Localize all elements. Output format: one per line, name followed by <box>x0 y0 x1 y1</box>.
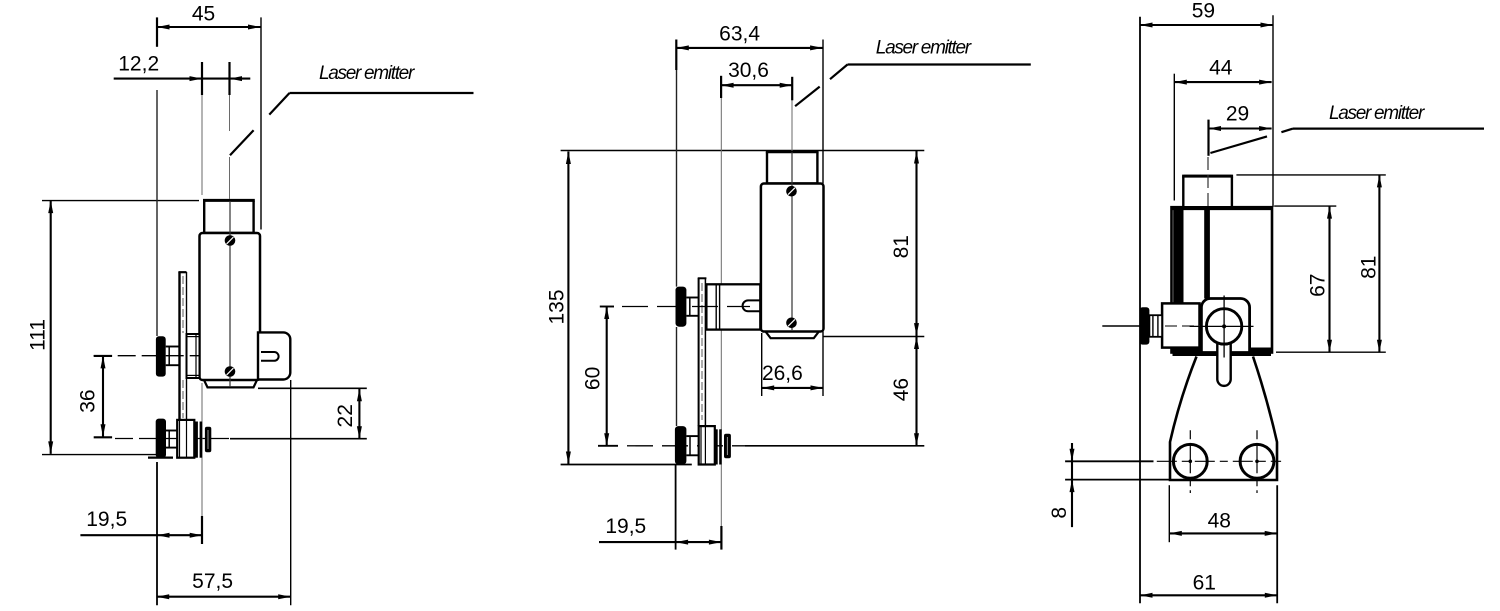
dimension 81 (middle view) <box>824 336 925 338</box>
svg-text:81: 81 <box>1357 256 1380 279</box>
dimension 61 (right view) <box>1140 594 1277 596</box>
boss inner bottom line (left view) <box>187 374 200 376</box>
svg-text:46: 46 <box>890 378 913 401</box>
svg-text:63,4: 63,4 <box>719 22 760 45</box>
dashed centerline lower knob (left view) <box>115 438 230 440</box>
lower stem top line (middle view) <box>686 435 698 437</box>
svg-text:Laser emitter: Laser emitter <box>1329 103 1425 124</box>
cap top edge thick (left view) <box>203 199 255 202</box>
middle view: bottom extension line y=464.5 <box>561 464 692 466</box>
dimension 60 (middle view) <box>606 307 608 446</box>
left view: extension line for 45 dim (right, body edge plane) <box>260 17 262 229</box>
bracket plate right edge (left view) <box>186 272 188 457</box>
dimension 81 (right view) <box>1378 175 1380 352</box>
body bottom black band (right view) <box>1173 348 1272 357</box>
dimension 44 (right view) <box>1174 81 1271 83</box>
dashed centerline upper knob (middle view) <box>622 306 750 308</box>
vertical centerline through body (middle view) <box>791 152 793 330</box>
vertical dashed centerline (right view) <box>1207 157 1209 207</box>
leader line Laser emitter (left view) <box>290 92 474 94</box>
clamp boss between plate and body (left view) <box>187 334 200 378</box>
screw head upper (middle view) <box>786 186 797 197</box>
lower stem bottom line (middle view) <box>686 454 698 456</box>
dimension 22 (left view) <box>258 387 367 389</box>
right view: 67 top extension <box>1274 205 1336 207</box>
svg-text:45: 45 <box>192 2 215 25</box>
dimension 111 (left view) <box>50 201 52 454</box>
slot below pivot (right view) <box>1217 344 1230 386</box>
lower knob stem rib (left view) <box>168 431 170 448</box>
middle view: right extension of 63,4 <box>822 40 824 184</box>
clamp block front (right view) <box>1162 303 1199 347</box>
adjustment knob front (right view) <box>1140 307 1150 344</box>
dimension 46 (middle view) <box>914 337 919 350</box>
vertical centerline through body (left view) <box>229 201 231 387</box>
dimension 45 (left view) <box>156 17 158 46</box>
upper stem top line (middle view) <box>686 297 698 299</box>
bracket arm top cap (middle view) <box>698 277 707 279</box>
dimension 19,5 (middle view) <box>675 465 677 550</box>
upper knob stem top line (left view) <box>166 346 180 348</box>
bracket plate left edge (left view) <box>178 272 180 457</box>
dimension 30,6 (middle view) <box>720 76 722 98</box>
clamp washer bar 2 (middle view) <box>719 429 722 464</box>
body top inner edge (right view) <box>1172 208 1273 210</box>
clamp washer bar 1 (left view) <box>195 422 198 458</box>
boss inner top line (left view) <box>187 336 200 338</box>
dimension 57,5 (left view) <box>290 380 292 605</box>
mounting arm silhouette (right view) <box>1170 357 1277 481</box>
lower clamp block (middle view) <box>699 426 715 464</box>
dimension 48 (right view) <box>1168 485 1170 542</box>
svg-text:26,6: 26,6 <box>762 362 803 385</box>
keyhole slot (middle view) <box>743 300 761 311</box>
middle view: thin line x=721 <box>720 98 722 528</box>
small knob slot (middle view) <box>726 437 728 455</box>
upper knob stem bottom line (left view) <box>166 364 180 366</box>
lower adjustment knob (middle view) <box>675 426 687 464</box>
clamp washer bar 1 (middle view) <box>715 429 718 464</box>
right view: right extension line (59/44/29) <box>1272 15 1274 207</box>
clamp inner line 1 (middle view) <box>700 427 702 464</box>
threaded stem (right view) <box>1149 315 1162 337</box>
stem rib 1 (right view) <box>1152 315 1154 337</box>
body bottom bevel (middle view) <box>766 332 819 339</box>
leader line Laser emitter (right view) <box>1293 128 1484 130</box>
clamp axis stub line (right view) <box>1102 325 1139 327</box>
bracket arm inner dashed line (middle view) <box>701 283 703 420</box>
small locking knob (middle view) <box>724 434 731 459</box>
dimension 59 (right view) <box>1140 24 1273 26</box>
dimension 135 (middle view) <box>567 152 569 465</box>
right foot vertical centerline (right view) <box>1256 430 1258 493</box>
46 dim bottom extension (middle view) <box>745 445 924 447</box>
svg-text:29: 29 <box>1226 102 1249 125</box>
pivot crosshair horizontal (right view) <box>1190 325 1254 327</box>
dashed centerline upper knob (left view) <box>94 355 199 357</box>
svg-text:30,6: 30,6 <box>728 59 769 82</box>
middle view: top extension line y=150.5 <box>561 150 925 152</box>
svg-text:12,2: 12,2 <box>118 53 159 76</box>
upper stem bottom line (middle view) <box>686 315 698 317</box>
leader line Laser emitter (middle view) <box>848 63 1031 65</box>
svg-text:57,5: 57,5 <box>192 570 233 593</box>
svg-text:Laser emitter: Laser emitter <box>876 38 972 59</box>
head block inner line 2 (middle view) <box>719 284 721 329</box>
middle view: thin line x=676 upper <box>676 70 678 287</box>
laser emitter body front (right view) <box>1172 207 1273 352</box>
lower knob stem bottom line (left view) <box>166 447 177 449</box>
vertical centerline above cap (middle view) <box>791 100 793 151</box>
svg-text:61: 61 <box>1193 572 1216 595</box>
bracket plate inner dashed line lower (left view) <box>182 380 184 418</box>
middle view: thin line x=676 middle <box>676 327 678 426</box>
upper adjustment knob (middle view) <box>676 287 687 327</box>
feet horizontal centerline (right view) <box>1157 460 1281 462</box>
60 dim bottom extension (middle view) <box>598 445 618 447</box>
svg-text:81: 81 <box>890 235 913 258</box>
right view: 81 top extension <box>1236 174 1385 176</box>
screw head upper (left view) <box>225 235 236 246</box>
small locking knob (left view) <box>205 427 211 453</box>
clamp washer bar 2 (left view) <box>200 422 203 458</box>
svg-text:Laser emitter: Laser emitter <box>319 63 415 84</box>
dimension 36 (left view) <box>94 355 112 357</box>
bracket arm left edge (middle view) <box>698 278 700 426</box>
lower stem rib (middle view) <box>689 436 691 455</box>
dimension 26,6 (middle view) <box>761 333 763 396</box>
bracket tab (left view) <box>258 332 290 379</box>
pivot center dot (right view) <box>1222 324 1226 328</box>
left view: top extension line of 111 dim <box>42 200 199 202</box>
clamp block inner line 1 (left view) <box>179 421 181 458</box>
laser emitter cap (left view) <box>204 200 253 233</box>
dimension 67 (right view) <box>1328 206 1330 352</box>
clamp head block (middle view) <box>706 284 760 329</box>
body bottom bevel (left view) <box>204 380 257 387</box>
dimension 8 (right view) <box>1065 460 1153 462</box>
laser emitter cap (middle view) <box>767 152 817 184</box>
stem rib 2 (right view) <box>1157 315 1159 337</box>
svg-text:36: 36 <box>77 389 100 412</box>
upper stem rib (middle view) <box>689 298 691 316</box>
head block inner line 1 (middle view) <box>715 284 717 329</box>
lower clamp block (left view) <box>177 420 194 458</box>
upper adjustment knob (left view) <box>156 336 166 376</box>
pivot circle (right view) <box>1206 309 1241 344</box>
lower knob stem top line (left view) <box>166 430 177 432</box>
screw head lower (middle view) <box>786 318 797 329</box>
svg-text:48: 48 <box>1208 509 1231 532</box>
left foot vertical centerline (right view) <box>1189 430 1191 493</box>
right foot hole circle (right view) <box>1240 444 1274 478</box>
left view: bottom extension line of 111 dim <box>42 454 157 456</box>
right view: 67/81 bottom extension <box>1276 351 1386 353</box>
body slot strip edge-on (right view) <box>1204 209 1210 299</box>
svg-text:19,5: 19,5 <box>86 508 127 531</box>
left view: bracket foot bottom edge <box>148 457 173 459</box>
left foot hole circle (right view) <box>1173 444 1207 478</box>
thin extension line x=202 lower (left view) <box>201 383 203 518</box>
lower adjustment knob (left view) <box>156 419 166 458</box>
dimension 63,4 (middle view) <box>675 40 677 71</box>
left foot center dot (right view) <box>1189 460 1193 464</box>
right foot center dot (right view) <box>1255 460 1259 464</box>
boss inner vertical line (left view) <box>195 334 197 378</box>
laser emitter body (left view) <box>200 233 261 380</box>
right view: 44 left extension <box>1173 74 1175 201</box>
laser emitter cap front (right view) <box>1183 176 1232 207</box>
dimension 29 (right view) <box>1207 120 1209 156</box>
right view: long left extension line (59/61) <box>1139 17 1141 604</box>
pivot crosshair vertical (right view) <box>1223 296 1225 358</box>
pivot head rounded block (right view) <box>1201 299 1249 353</box>
clamp inner line 2 (middle view) <box>704 427 706 464</box>
bracket plate inner dashed line (left view) <box>182 276 184 333</box>
slot in bracket tab (left view) <box>261 352 279 361</box>
left view: thin reference line x=157 upper <box>156 90 158 336</box>
dimension 19,5 (left view) <box>156 462 158 605</box>
svg-text:19,5: 19,5 <box>605 515 646 538</box>
clamp block inner line 2 (left view) <box>186 421 188 458</box>
svg-text:111: 111 <box>26 319 49 351</box>
left view: thin extension line x=202 upper <box>201 95 203 195</box>
laser emitter body (middle view) <box>761 184 824 332</box>
svg-text:67: 67 <box>1307 274 1330 297</box>
clamp axis dashes in block (right view) <box>1165 325 1200 327</box>
screw head lower (left view) <box>225 366 236 377</box>
bracket arm right edge (middle view) <box>704 278 706 426</box>
upper knob stem rib (left view) <box>168 347 170 366</box>
cap top edge thick (right view) <box>1182 175 1233 178</box>
svg-text:8: 8 <box>1048 507 1071 519</box>
small knob slot (left view) <box>207 430 209 449</box>
svg-text:22: 22 <box>334 404 357 427</box>
vertical centerline upper segment (left view) <box>229 95 231 131</box>
vertical centerline above cap (left view) <box>229 157 231 199</box>
svg-text:59: 59 <box>1192 0 1215 22</box>
bracket plate top edge (left view) <box>178 271 186 273</box>
svg-text:60: 60 <box>582 367 605 390</box>
cap top edge thick (middle view) <box>766 150 819 153</box>
svg-text:44: 44 <box>1209 57 1233 80</box>
dashed centerline lower knob (middle view) <box>627 445 745 447</box>
dimension 12,2 (left view) <box>201 62 203 95</box>
body left rail black strip (right view) <box>1173 209 1183 303</box>
60 dim top extension (middle view) <box>600 306 614 308</box>
svg-text:135: 135 <box>545 289 568 324</box>
